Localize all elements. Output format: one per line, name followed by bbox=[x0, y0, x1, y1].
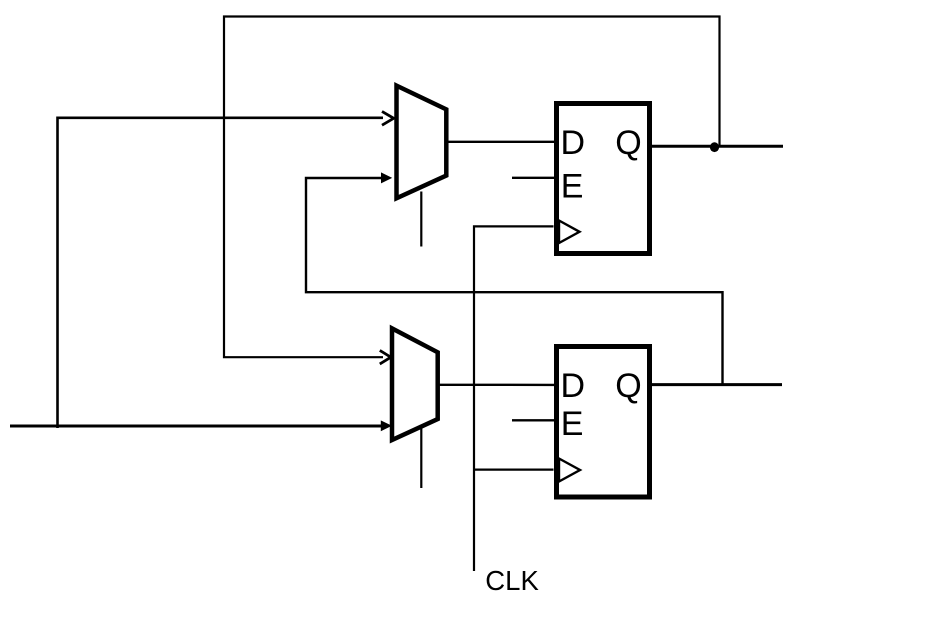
wire: CLK branch into U2 clock pin bbox=[474, 469, 554, 471]
wire: MUX1 select stub bbox=[420, 192, 422, 247]
svg-text:E: E bbox=[561, 167, 584, 205]
svg-text:CLK: CLK bbox=[485, 565, 539, 596]
wire: MUX2 output to U2 D input bbox=[438, 384, 554, 387]
wire: U2 enable stub bbox=[512, 419, 554, 421]
wire: branch of primary input up to MUX1 data input 0 (open arrowhead) bbox=[58, 111, 394, 428]
svg-text:D: D bbox=[561, 124, 586, 162]
wire: feedback net from U2 Q output up to MUX1 data input 1 (filled arrowhead) bbox=[306, 172, 723, 384]
wire: U1 enable stub bbox=[512, 177, 554, 179]
mux M2 (2-to-1 multiplexer trapezoid) bbox=[392, 328, 438, 440]
svg-text:E: E bbox=[561, 405, 584, 443]
wire: U1 Q output net bbox=[650, 145, 783, 148]
svg-text:D: D bbox=[561, 367, 586, 405]
flip-flop U2 (D flip-flop with enable) bbox=[557, 347, 650, 498]
clock input triangle of U1 bbox=[559, 221, 580, 244]
wire: primary input net from left edge to MUX2 data input 1 (filled arrowhead) bbox=[10, 420, 392, 431]
wire: U2 Q output net bbox=[650, 383, 782, 386]
wire: MUX1 output to U1 D input bbox=[446, 141, 554, 143]
wire: MUX2 select stub bbox=[420, 429, 422, 489]
junction node A on U1 Q output bbox=[710, 142, 719, 152]
wire: feedback net from node A (Q1 output) over the top to MUX2 data input 0 bbox=[224, 17, 720, 365]
mux M1 (2-to-1 multiplexer trapezoid) bbox=[397, 86, 447, 199]
wire: CLK net, vertical riser and branch into U1 clock pin bbox=[474, 226, 554, 571]
flip-flop U1 (D flip-flop with enable) bbox=[557, 104, 650, 254]
svg-text:Q: Q bbox=[615, 367, 641, 405]
svg-text:Q: Q bbox=[615, 124, 641, 162]
clock input triangle of U2 bbox=[559, 459, 580, 482]
